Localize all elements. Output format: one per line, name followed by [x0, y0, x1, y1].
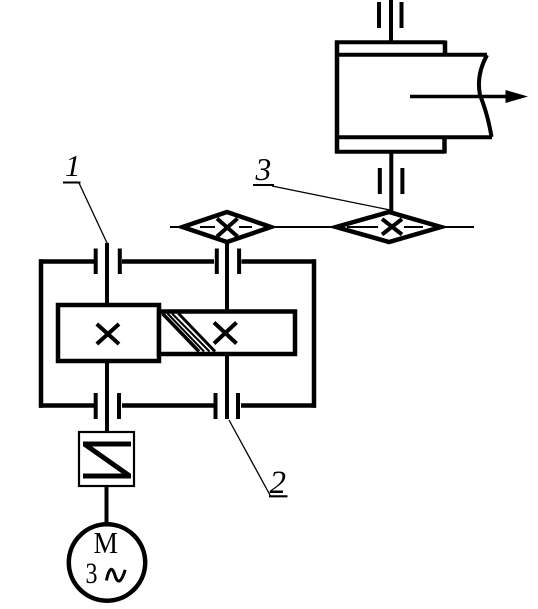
shaft: gearbox input shaft 1 (left vertical) — [105, 243, 109, 432]
belt bottom line — [335, 135, 492, 139]
gear wheel on input shaft (pinion block) — [58, 305, 159, 361]
bevel gear right 3 (on drum shaft) — [336, 212, 441, 242]
bearing: input shaft bottom — [96, 393, 119, 419]
drum top flange line — [335, 40, 445, 44]
drum bottom flange line — [335, 150, 445, 154]
belt motion arrow — [410, 90, 528, 103]
gearbox housing — [39, 259, 316, 407]
drum bottom flange right edge — [442, 136, 447, 154]
drum top flange right edge — [443, 41, 448, 57]
gear mesh hatch — [163, 314, 216, 352]
leader line to label 3 — [272, 186, 390, 210]
shaft: coupling to motor — [105, 486, 109, 527]
bearing: input shaft top (label 1 points here) — [96, 249, 120, 275]
label 2 — [269, 465, 288, 501]
label 3 — [253, 152, 274, 187]
svg-text:1: 1 — [65, 148, 81, 183]
elastic coupling — [79, 432, 134, 486]
shaft: gearbox output shaft 2 (right vertical) — [225, 242, 229, 419]
bearing: output shaft top — [217, 249, 239, 275]
shaft: drum to right bevel gear — [389, 151, 393, 214]
belt break curve (right end) — [479, 55, 492, 137]
bearing: above right bevel gear — [380, 168, 403, 194]
svg-text:3: 3 — [255, 152, 272, 187]
leader line to label 1 — [79, 183, 108, 244]
svg-text:M: M — [94, 525, 119, 560]
leader line to label 2 — [229, 420, 271, 496]
motor M 3~ — [69, 524, 145, 600]
shaft: drum upper shaft — [389, 0, 393, 44]
horizontal shaft axis line through bevel gears — [170, 226, 474, 228]
drum pulley with belt — [335, 41, 492, 154]
gear wheel on output shaft 2 — [159, 312, 295, 355]
bearing: output shaft bottom (label 2 points here) — [216, 393, 239, 419]
belt top line — [335, 53, 487, 57]
drum left edge — [335, 41, 340, 154]
bearing: drum upper bearing — [379, 2, 402, 28]
svg-text:3: 3 — [86, 557, 98, 590]
bevel gear left (on gearbox output shaft) — [183, 212, 272, 242]
label 1 — [63, 148, 81, 183]
